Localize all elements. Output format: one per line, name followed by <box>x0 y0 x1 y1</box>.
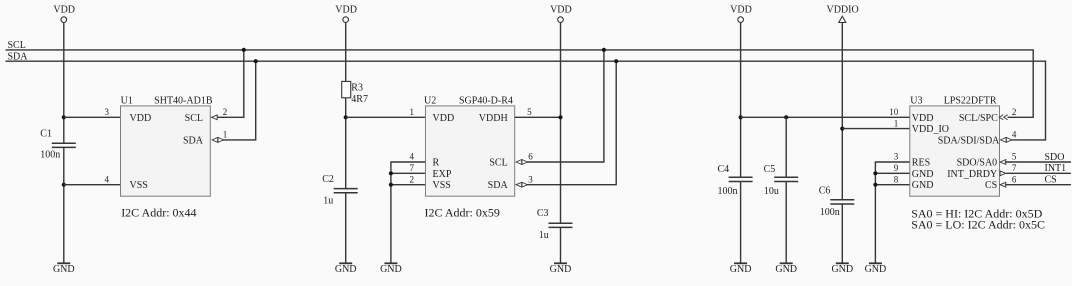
svg-text:2: 2 <box>1012 107 1017 117</box>
U1 I2C address note <box>121 206 196 220</box>
wire net INT1 <box>1006 172 1071 174</box>
wire net SDO <box>1005 161 1071 163</box>
svg-text:4: 4 <box>1012 130 1017 140</box>
wire to U3 pin 1 <box>842 128 910 130</box>
svg-text:GND: GND <box>53 264 75 275</box>
svg-text:9: 9 <box>894 163 899 173</box>
svg-text:4R7: 4R7 <box>351 94 368 105</box>
junction VDD/pin10 <box>739 115 743 119</box>
wire C4 to GND <box>740 182 742 264</box>
svg-text:6: 6 <box>1012 174 1017 184</box>
svg-text:U1: U1 <box>121 96 133 107</box>
IC U1 SHT40-AD1B body <box>121 96 213 197</box>
wire U2 pin 5 to VDD <box>515 116 561 118</box>
wire U3 pin 8 <box>875 184 909 186</box>
svg-text:5: 5 <box>527 107 532 117</box>
wire C5 branch <box>785 117 787 177</box>
svg-text:INT1: INT1 <box>1045 163 1067 174</box>
svg-text:10u: 10u <box>764 186 779 197</box>
IC U3 LPS22DFTR body <box>910 96 1000 197</box>
svg-text:VDDH: VDDH <box>479 113 508 124</box>
U2 SDA bidir arrow <box>516 182 527 187</box>
svg-text:RES: RES <box>912 158 930 169</box>
U3 pin 2 number <box>1012 107 1017 117</box>
U3 pin 1 number <box>894 118 899 128</box>
wire VDD to R3 <box>345 22 347 81</box>
svg-text:VDD: VDD <box>130 113 152 124</box>
U1 pin names <box>130 113 204 191</box>
svg-text:R: R <box>433 158 440 169</box>
wire to U1 pin 4 <box>64 184 121 186</box>
svg-text:GND: GND <box>730 264 752 275</box>
svg-text:C1: C1 <box>40 128 52 139</box>
ground (C5) <box>775 263 797 275</box>
ground (U3) <box>865 263 887 275</box>
U3 pin 7 number <box>1012 163 1017 173</box>
U3 SDO input arrow <box>1000 160 1006 165</box>
U2 pin 7 number <box>410 163 415 173</box>
wire C5 to GND <box>785 182 787 264</box>
svg-text:SDO/SA0: SDO/SA0 <box>957 158 998 169</box>
junction pin7 rail <box>389 171 393 175</box>
svg-text:GND: GND <box>380 264 402 275</box>
svg-text:GND: GND <box>775 264 797 275</box>
wire U1 SDA to bus <box>223 61 256 140</box>
wire net CS <box>1005 184 1071 186</box>
junction pin8 rail <box>873 183 877 187</box>
junction VDDIO/pin1 <box>840 127 844 131</box>
svg-text:SCL: SCL <box>489 158 507 169</box>
U2 pin 2 number <box>410 174 415 184</box>
wire SDA bus <box>6 61 1046 140</box>
capacitor C4 <box>718 164 753 197</box>
junction SCL bus (U1) <box>242 48 246 52</box>
wire C6 to GND <box>841 204 843 263</box>
svg-text:VDD: VDD <box>433 113 455 124</box>
net label SCL <box>8 40 26 51</box>
svg-text:1: 1 <box>894 118 899 128</box>
junction R3/pin1 <box>344 115 348 119</box>
U3 pin 3 number <box>894 152 899 162</box>
wire C3 to GND <box>560 227 562 263</box>
svg-text:VDD: VDD <box>53 5 75 16</box>
U1 SDA bidir arrow <box>212 137 223 142</box>
svg-text:1: 1 <box>223 130 228 140</box>
U3 SCL/SPC clock-input arrow <box>999 115 1008 120</box>
ground (U2) <box>380 263 402 275</box>
svg-text:SDA/SDI/SDA: SDA/SDI/SDA <box>938 135 1000 146</box>
svg-text:100n: 100n <box>40 150 60 161</box>
svg-text:3: 3 <box>894 152 899 162</box>
svg-text:7: 7 <box>1012 163 1017 173</box>
svg-text:100n: 100n <box>820 207 840 218</box>
wire C1 to GND <box>63 147 65 263</box>
svg-text:LPS22DFTR: LPS22DFTR <box>944 96 997 107</box>
svg-text:8: 8 <box>894 174 899 184</box>
svg-text:SDA: SDA <box>183 135 204 146</box>
svg-text:2: 2 <box>223 107 228 117</box>
wire SCL bus <box>6 50 1034 117</box>
svg-text:VSS: VSS <box>433 180 451 191</box>
svg-text:CS: CS <box>985 180 997 191</box>
wire U2 pin 2 <box>391 184 426 186</box>
ground (C6) <box>831 263 853 275</box>
U2 I2C address note <box>425 206 500 220</box>
svg-text:GND: GND <box>831 264 853 275</box>
U3 SDA bidir arrow <box>1001 137 1012 142</box>
svg-text:100n: 100n <box>718 186 738 197</box>
wire VDDIO to C6 <box>841 23 843 200</box>
power VDD (C3 rail) <box>550 5 572 23</box>
svg-text:C2: C2 <box>322 174 334 185</box>
power VDD (U2 rail) <box>335 5 357 23</box>
svg-text:7: 7 <box>410 163 415 173</box>
wire to U1 pin 3 <box>64 116 121 118</box>
U2 SCL bidir arrow <box>516 160 527 165</box>
U2 pin 3 number <box>528 174 533 184</box>
svg-text:SCL: SCL <box>185 113 203 124</box>
svg-text:SDA: SDA <box>488 180 509 191</box>
svg-text:GND: GND <box>335 264 357 275</box>
svg-text:4: 4 <box>105 174 110 184</box>
resistor R3 <box>342 81 368 105</box>
U2 pin 5 number <box>527 107 532 117</box>
wire VDD rail to C1 <box>63 22 65 143</box>
U3 pin 8 number <box>894 174 899 184</box>
net label SDA <box>8 51 29 62</box>
wire to U2 pin 1 <box>346 116 426 118</box>
svg-text:VDD: VDD <box>730 5 752 16</box>
U1 SCL input arrow <box>212 115 218 120</box>
svg-text:2: 2 <box>410 174 415 184</box>
svg-text:SA0 = LO: I2C Addr: 0x5C: SA0 = LO: I2C Addr: 0x5C <box>911 217 1045 231</box>
junction C5 tap <box>784 115 788 119</box>
IC U2 SGP40-D-R4 body <box>424 96 515 197</box>
svg-text:C6: C6 <box>819 185 831 196</box>
svg-text:5: 5 <box>1012 152 1017 162</box>
svg-text:VDD: VDD <box>550 5 572 16</box>
svg-text:C5: C5 <box>764 164 776 175</box>
svg-text:3: 3 <box>105 107 110 117</box>
wire U2 pin 4 / GND rail <box>391 162 426 263</box>
junction VSS/pin4 <box>62 183 66 187</box>
svg-text:C4: C4 <box>718 164 730 175</box>
ground (C4) <box>730 263 752 275</box>
power VDDIO <box>826 5 858 23</box>
U1 pin 2 number <box>223 107 228 117</box>
wire U3 pin 3 / GND rail <box>875 162 909 263</box>
U2 pin 4 number <box>410 152 415 162</box>
svg-text:VDD: VDD <box>912 113 934 124</box>
net label CS <box>1045 175 1057 186</box>
U3 SA0 HI address note <box>911 206 1042 220</box>
ground (C2) <box>335 263 357 275</box>
wire U1 SCL to bus <box>218 50 244 117</box>
svg-text:C3: C3 <box>537 208 549 219</box>
ground (C3) <box>550 263 572 275</box>
U3 pin 10 number <box>889 107 899 117</box>
U3 pin 5 number <box>1012 152 1017 162</box>
net label SDO <box>1045 152 1065 163</box>
svg-text:VDD: VDD <box>335 5 357 16</box>
junction SDA bus (U2) <box>614 59 618 63</box>
svg-text:R3: R3 <box>351 83 363 94</box>
wire U2 SDA to bus <box>527 61 616 185</box>
svg-text:6: 6 <box>528 152 533 162</box>
wire C2 to GND <box>345 193 347 263</box>
svg-text:VDDIO: VDDIO <box>826 5 858 16</box>
svg-text:4: 4 <box>410 152 415 162</box>
U3 SA0 LO address note <box>911 217 1045 231</box>
junction SCL bus (U2) <box>602 48 606 52</box>
U1 pin 3 number <box>105 107 110 117</box>
svg-text:VSS: VSS <box>130 180 148 191</box>
svg-text:GND: GND <box>912 169 934 180</box>
svg-text:I2C Addr: 0x44: I2C Addr: 0x44 <box>121 206 196 220</box>
svg-text:VDD_IO: VDD_IO <box>912 124 949 135</box>
U2 pin 1 number <box>410 107 415 117</box>
svg-text:1u: 1u <box>323 196 333 207</box>
U3 pin 4 number <box>1012 130 1017 140</box>
junction pin9 rail <box>873 171 877 175</box>
svg-text:GND: GND <box>912 180 934 191</box>
junction pin5/VDD <box>558 115 562 119</box>
U3 INT_DRDY output arrow <box>1000 171 1006 176</box>
capacitor C5 <box>764 164 799 197</box>
svg-text:SHT40-AD1B: SHT40-AD1B <box>154 96 213 107</box>
svg-text:SCL/SPC: SCL/SPC <box>959 113 998 124</box>
svg-text:1: 1 <box>410 107 415 117</box>
net label INT1 <box>1045 163 1067 174</box>
svg-text:3: 3 <box>528 174 533 184</box>
svg-text:CS: CS <box>1045 175 1057 186</box>
svg-text:10: 10 <box>889 107 899 117</box>
svg-text:U2: U2 <box>424 96 436 107</box>
svg-text:EXP: EXP <box>433 169 452 180</box>
svg-text:SGP40-D-R4: SGP40-D-R4 <box>459 96 513 107</box>
junction pin2 rail <box>389 183 393 187</box>
power VDD (U1 rail) <box>53 5 75 23</box>
svg-text:I2C Addr: 0x59: I2C Addr: 0x59 <box>425 206 500 220</box>
capacitor C6 <box>819 185 855 218</box>
wire VDD to C3 <box>560 22 562 223</box>
wire to U3 pin 10 <box>741 116 910 118</box>
wire U3 pin 9 <box>875 172 909 174</box>
U3 pin 6 number <box>1012 174 1017 184</box>
U1 pin 1 number <box>223 130 228 140</box>
capacitor C3 <box>537 208 573 241</box>
U3 pin names <box>912 113 1000 191</box>
svg-text:GND: GND <box>865 264 887 275</box>
svg-text:INT_DRDY: INT_DRDY <box>947 169 997 180</box>
junction VDD/pin3 <box>62 115 66 119</box>
svg-text:U3: U3 <box>910 96 922 107</box>
capacitor C1 <box>40 128 76 160</box>
power VDD (U3 rail) <box>730 5 752 23</box>
svg-text:GND: GND <box>550 264 572 275</box>
svg-text:SDO: SDO <box>1045 152 1065 163</box>
U2 pin 6 number <box>528 152 533 162</box>
wire R3 to C2 <box>345 98 347 189</box>
ground (C1) <box>53 263 75 275</box>
U1 pin 4 number <box>105 174 110 184</box>
capacitor C2 <box>322 174 358 207</box>
U3 pin 9 number <box>894 163 899 173</box>
U2 pin names <box>433 113 509 191</box>
svg-text:1u: 1u <box>539 230 549 241</box>
wire U2 pin 7 <box>391 172 426 174</box>
U3 CS input arrow <box>1000 182 1006 187</box>
junction SDA bus (U1) <box>254 59 258 63</box>
wire VDD to C4 <box>740 22 742 177</box>
wire U2 SCL to bus <box>527 50 604 162</box>
